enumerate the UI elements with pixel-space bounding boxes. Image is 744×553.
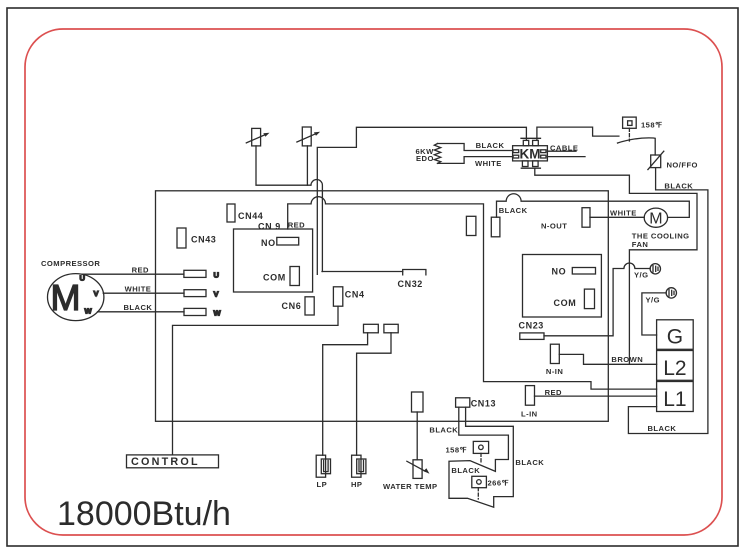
svg-text:BROWN: BROWN <box>611 355 643 364</box>
svg-text:266℉: 266℉ <box>488 478 510 487</box>
heater 6KW EDO <box>416 144 441 164</box>
svg-text:BLACK: BLACK <box>499 206 528 215</box>
svg-text:CN 9: CN 9 <box>258 222 281 232</box>
earth Y/G 1 <box>634 264 661 280</box>
pressure switch HP <box>351 455 366 489</box>
wire WHITE compressor V <box>103 292 184 294</box>
wire BLACK NO/FFO to L1 loop <box>628 168 708 434</box>
svg-text:BLACK: BLACK <box>124 303 153 312</box>
connector L-IN <box>525 386 534 406</box>
svg-text:158℉: 158℉ <box>641 120 663 129</box>
relay box CN9 <box>234 229 313 292</box>
svg-text:W: W <box>85 307 93 316</box>
svg-text:NO/FFO: NO/FFO <box>667 160 698 169</box>
wire WHITE EDO to KM <box>438 157 514 164</box>
switch blade <box>618 138 656 155</box>
terminal W <box>184 308 206 315</box>
wire to water temp sensor <box>416 412 418 460</box>
svg-text:BLACK: BLACK <box>451 466 480 475</box>
wire to HP <box>357 333 391 455</box>
svg-text:WHITE: WHITE <box>610 209 637 218</box>
wire KM bottom loop to L2 <box>535 168 697 364</box>
svg-text:WHITE: WHITE <box>475 159 502 168</box>
wire RED CN9 to L1 <box>288 197 657 389</box>
svg-text:COM: COM <box>263 273 286 283</box>
earth Y/G 2 <box>646 288 677 305</box>
terminal G <box>657 320 694 350</box>
wire CN32 to node <box>322 271 403 273</box>
svg-text:M: M <box>51 277 81 318</box>
thermistor RT2 <box>297 127 320 146</box>
svg-text:CN4: CN4 <box>345 289 365 299</box>
svg-text:KM: KM <box>520 146 541 161</box>
svg-text:N-IN: N-IN <box>546 367 563 376</box>
svg-text:CN43: CN43 <box>191 235 216 245</box>
wire RED L-IN to L1 <box>535 395 657 397</box>
wire BLACK EDO to KM <box>438 144 514 151</box>
svg-text:LP: LP <box>317 480 328 489</box>
svg-text:CN13: CN13 <box>471 398 496 408</box>
wire CN13 fuse loop <box>449 407 513 507</box>
connector CN44 <box>227 204 235 222</box>
connector BLACK fan <box>491 217 500 237</box>
svg-text:HP: HP <box>351 480 362 489</box>
wire RT1/RT2 tie with hop into board <box>256 146 322 272</box>
wire BLACK compressor W <box>98 311 185 313</box>
svg-text:Y/G: Y/G <box>634 271 648 280</box>
svg-text:NO: NO <box>261 238 276 248</box>
terminal U <box>184 270 206 277</box>
svg-text:COM: COM <box>554 298 577 308</box>
svg-text:COMPRESSOR: COMPRESSOR <box>41 259 100 268</box>
connector (spare) <box>466 216 476 235</box>
box CONTROL <box>127 455 219 468</box>
svg-text:M: M <box>649 210 662 227</box>
connector CN4 <box>333 287 342 306</box>
svg-text:RED: RED <box>288 220 305 229</box>
svg-text:EDO: EDO <box>416 154 434 163</box>
svg-text:BLACK: BLACK <box>515 458 544 467</box>
svg-text:U: U <box>214 271 220 280</box>
connector N-IN <box>550 344 559 363</box>
svg-text:V: V <box>214 290 220 299</box>
svg-text:BLACK: BLACK <box>648 424 677 433</box>
svg-text:NO: NO <box>552 267 567 277</box>
thermistor RT1 <box>246 128 269 146</box>
svg-text:G: G <box>667 326 683 349</box>
svg-text:V: V <box>94 289 100 298</box>
svg-text:CABLE: CABLE <box>550 143 578 152</box>
wire BLACK fan feed with hop <box>497 194 690 218</box>
thermal fuse 266F <box>472 476 510 499</box>
connector water temp <box>412 392 424 412</box>
svg-text:W: W <box>214 309 222 318</box>
wire CN23 to earth Y/G <box>544 263 650 336</box>
wire RT2 drop <box>306 146 308 185</box>
svg-text:CN32: CN32 <box>398 279 423 289</box>
svg-text:L1: L1 <box>663 388 686 411</box>
svg-text:WATER TEMP: WATER TEMP <box>383 482 438 491</box>
switch NO/FFO <box>648 151 698 169</box>
relay box 2 <box>523 255 602 318</box>
connector CN43 <box>177 228 186 248</box>
svg-text:CN6: CN6 <box>282 301 302 311</box>
terminal V <box>184 290 206 297</box>
connector HP pigtail B <box>384 324 398 333</box>
main control board outline <box>156 191 609 421</box>
wire to LP <box>323 333 368 455</box>
svg-text:BLACK: BLACK <box>664 182 693 191</box>
connector CN13 <box>456 398 470 407</box>
svg-text:CN44: CN44 <box>238 211 263 221</box>
wire WHITE to fan <box>590 216 644 218</box>
compressor M1 <box>47 274 103 321</box>
svg-text:BLACK: BLACK <box>476 141 505 150</box>
svg-text:18000Btu/h: 18000Btu/h <box>57 495 231 533</box>
svg-text:RED: RED <box>545 388 562 397</box>
wire G terminal to earth Y/G <box>642 293 666 335</box>
svg-text:CONTROL: CONTROL <box>131 456 200 468</box>
svg-text:L-IN: L-IN <box>521 410 538 419</box>
wire CABLE stubs <box>547 150 576 152</box>
svg-text:N-OUT: N-OUT <box>541 222 567 231</box>
contactor KM <box>513 138 548 168</box>
terminal L2 <box>657 351 694 381</box>
svg-text:Y/G: Y/G <box>646 295 660 304</box>
wire KM to thermal switch <box>537 127 619 140</box>
connector LP pigtail A <box>364 324 379 333</box>
fan motor M2 <box>644 208 667 227</box>
svg-text:158℉: 158℉ <box>446 446 468 455</box>
svg-text:FAN: FAN <box>632 240 649 249</box>
wire BROWN N-IN to L2 <box>559 354 656 364</box>
svg-text:BLACK: BLACK <box>429 426 458 435</box>
thermal fuse 158F (water heater) <box>446 441 489 464</box>
wire KM coil to board node <box>317 127 526 274</box>
sensor WATER TEMP <box>383 460 438 491</box>
svg-text:CN23: CN23 <box>519 321 544 331</box>
pressure switch LP <box>316 455 330 489</box>
wire RED compressor U <box>82 273 184 275</box>
wire CONTROL to CN4 <box>173 306 339 455</box>
thermal fuse 158F <box>623 117 663 141</box>
terminal L1 <box>657 382 694 412</box>
connector N-OUT <box>582 208 590 228</box>
svg-text:WHITE: WHITE <box>125 284 152 293</box>
svg-text:L2: L2 <box>663 357 686 380</box>
svg-text:RED: RED <box>132 266 149 275</box>
connector CN32 <box>403 270 426 275</box>
